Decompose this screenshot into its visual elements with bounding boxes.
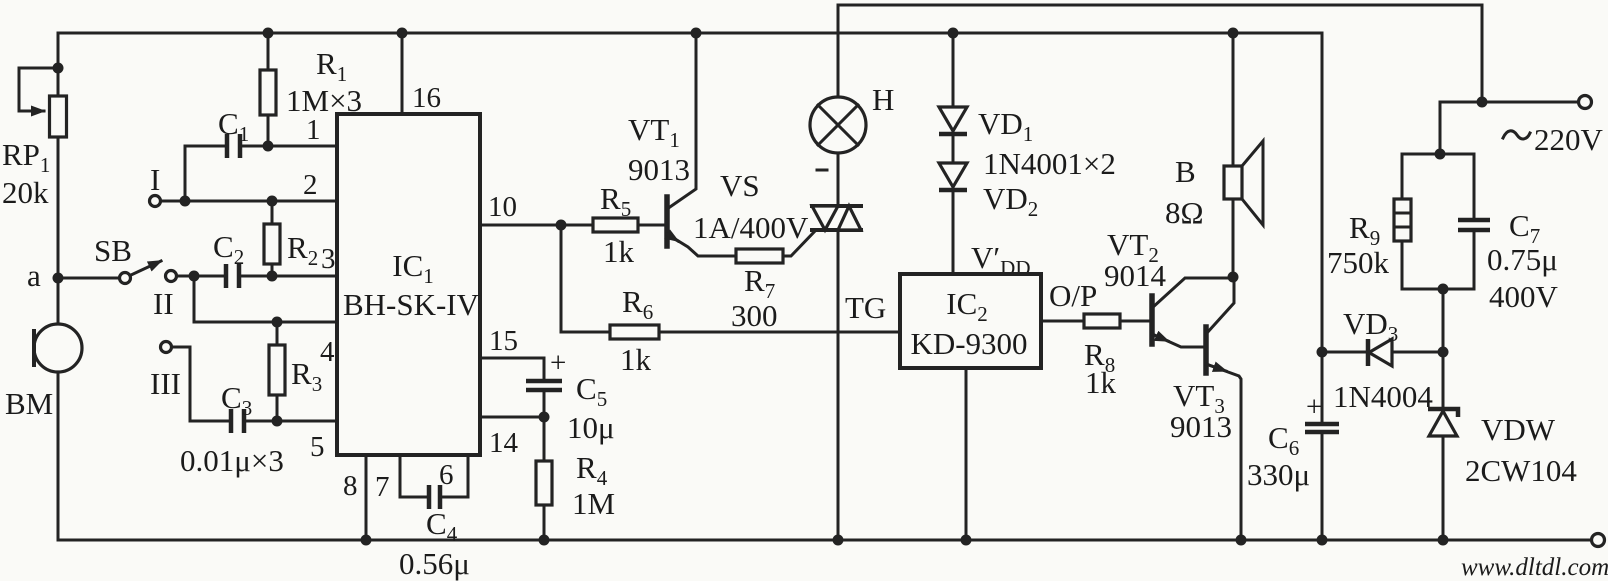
- svg-text:1k: 1k: [620, 342, 652, 377]
- zener VDW: [1428, 352, 1577, 546]
- svg-text:15: 15: [489, 325, 518, 357]
- capacitor C4: [399, 455, 470, 581]
- terminal ~220V: [1477, 96, 1604, 158]
- svg-text:VDW: VDW: [1481, 412, 1556, 447]
- svg-text:C2: C2: [213, 229, 244, 269]
- capacitor C2: [177, 229, 337, 288]
- wire pin 14: [480, 417, 544, 459]
- svg-text:400V: 400V: [1489, 279, 1559, 314]
- svg-text:www.dltdl.com: www.dltdl.com: [1461, 554, 1608, 581]
- svg-text:a: a: [27, 258, 41, 293]
- svg-text:TG: TG: [845, 290, 886, 325]
- wire 220V top rail: [838, 5, 1482, 102]
- svg-text:VT1: VT1: [628, 112, 680, 152]
- svg-text:0.75μ: 0.75μ: [1487, 242, 1558, 277]
- svg-text:2: 2: [303, 169, 318, 201]
- label RP1 20k: [2, 137, 50, 210]
- svg-text:III: III: [150, 366, 181, 401]
- svg-text:C6: C6: [1268, 420, 1299, 460]
- wire pin 4 row: [194, 276, 337, 368]
- svg-text:1k: 1k: [1085, 365, 1117, 400]
- wire IC2 ground: [961, 368, 972, 546]
- op-amp U2 IC2 box: [900, 274, 1041, 368]
- diode VD3: [1317, 306, 1444, 414]
- resistor R7: [731, 231, 815, 333]
- potentiometer RP1: [19, 33, 67, 324]
- svg-text:7: 7: [375, 471, 390, 503]
- svg-text:+: +: [550, 347, 566, 379]
- svg-text:1M: 1M: [572, 486, 615, 521]
- resistor R9: [1327, 154, 1411, 289]
- svg-text:1N4001×2: 1N4001×2: [983, 146, 1116, 181]
- svg-text:R6: R6: [622, 284, 653, 324]
- resistor R3: [269, 322, 322, 421]
- svg-text:VD3: VD3: [1343, 306, 1398, 346]
- node a: [27, 258, 64, 293]
- svg-text:1A/400V: 1A/400V: [693, 210, 809, 245]
- svg-text:B: B: [1175, 154, 1196, 189]
- resistor R1: [260, 28, 362, 147]
- op-amp U1 IC1 box: [337, 114, 480, 455]
- svg-text:C3: C3: [221, 380, 252, 420]
- wire pin 2 row: [161, 114, 337, 207]
- capacitor C5: [480, 325, 615, 445]
- svg-text:6: 6: [439, 459, 454, 491]
- svg-text:VD2: VD2: [983, 181, 1038, 221]
- svg-text:5: 5: [310, 431, 325, 463]
- svg-text:220V: 220V: [1534, 122, 1604, 157]
- svg-text:I: I: [150, 162, 160, 197]
- wire RC bottom: [1402, 284, 1474, 358]
- svg-text:3: 3: [321, 243, 336, 275]
- svg-text:8Ω: 8Ω: [1165, 195, 1204, 230]
- svg-text:IC1: IC1: [392, 248, 434, 288]
- speaker B: [1165, 28, 1263, 278]
- svg-text:H: H: [872, 82, 894, 117]
- microphone BM: [5, 324, 82, 540]
- svg-text:R9: R9: [1349, 210, 1380, 250]
- svg-text:R4: R4: [576, 450, 608, 490]
- wire bottom rail: [58, 539, 1591, 542]
- svg-text:1N4004: 1N4004: [1333, 379, 1433, 414]
- capacitor C6: [1247, 33, 1339, 546]
- svg-text:C4: C4: [426, 506, 458, 546]
- svg-text:R3: R3: [291, 356, 322, 396]
- svg-text:16: 16: [412, 82, 441, 114]
- svg-text:+: +: [1306, 391, 1322, 423]
- svg-text:0.01μ×3: 0.01μ×3: [180, 443, 284, 478]
- svg-text:9014: 9014: [1104, 258, 1167, 293]
- svg-text:VS: VS: [720, 168, 760, 203]
- svg-text:RP1: RP1: [2, 137, 50, 177]
- terminal I: [150, 162, 161, 207]
- terminal II: [153, 271, 177, 322]
- capacitor C3: [172, 347, 337, 478]
- svg-text:II: II: [153, 286, 174, 321]
- pin 7 8 ground wire: [343, 455, 390, 546]
- svg-text:R5: R5: [600, 181, 631, 221]
- lamp H: [810, 5, 894, 206]
- resistor R2: [264, 201, 318, 276]
- svg-text:14: 14: [489, 427, 519, 459]
- capacitor C7: [1458, 154, 1559, 314]
- transistor Q2 VT2: [1104, 227, 1239, 347]
- capacitor C1: [185, 106, 337, 201]
- transistor Q3 VT3: [1170, 279, 1247, 546]
- triac VS: [693, 168, 861, 546]
- svg-text:O/P: O/P: [1049, 278, 1097, 313]
- svg-text:1: 1: [306, 114, 321, 146]
- svg-text:300: 300: [731, 298, 778, 333]
- svg-text:R1: R1: [316, 46, 347, 86]
- resistor R6: [561, 225, 900, 377]
- terminal bottom right: [1592, 534, 1605, 547]
- terminal III: [150, 342, 181, 402]
- svg-text:SB: SB: [94, 233, 132, 268]
- wire 220V to RC: [1402, 102, 1482, 160]
- svg-text:VD1: VD1: [978, 106, 1033, 146]
- pin 16: [397, 28, 442, 115]
- svg-text:8: 8: [343, 470, 358, 502]
- svg-text:0.56μ: 0.56μ: [399, 546, 470, 581]
- svg-text:R2: R2: [287, 230, 318, 270]
- diode VD1: [939, 28, 1033, 147]
- svg-text:IC2: IC2: [946, 286, 988, 326]
- svg-text:KD-9300: KD-9300: [910, 326, 1027, 361]
- svg-text:10μ: 10μ: [567, 410, 615, 445]
- svg-text:750k: 750k: [1327, 245, 1390, 280]
- resistor R5: [480, 181, 665, 269]
- svg-text:9013: 9013: [1170, 409, 1232, 444]
- svg-text:20k: 20k: [2, 175, 49, 210]
- svg-text:10: 10: [488, 191, 517, 223]
- wire top supply rail: [58, 32, 1322, 35]
- switch SB: [58, 233, 161, 284]
- svg-text:BH-SK-IV: BH-SK-IV: [343, 287, 480, 322]
- svg-text:330μ: 330μ: [1247, 457, 1310, 492]
- svg-text:R7: R7: [744, 263, 775, 303]
- svg-text:BM: BM: [5, 386, 53, 421]
- svg-text:C5: C5: [576, 371, 607, 411]
- svg-text:9013: 9013: [628, 152, 690, 187]
- transistor Q1 VT1: [628, 28, 736, 257]
- svg-text:2CW104: 2CW104: [1465, 453, 1577, 488]
- svg-text:1k: 1k: [603, 234, 635, 269]
- resistor R8: [1041, 278, 1150, 400]
- resistor R4: [536, 417, 615, 546]
- diode VD2: [939, 134, 1116, 280]
- svg-text:C1: C1: [218, 106, 249, 146]
- svg-text:4: 4: [320, 336, 335, 368]
